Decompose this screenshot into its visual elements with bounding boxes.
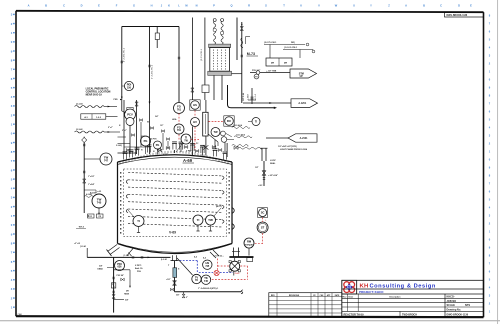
svg-text:TW: TW xyxy=(208,218,213,222)
svg-text:(1-2-2.5-CM-1: (1-2-2.5-CM-1 xyxy=(284,47,298,49)
svg-text:PG: PG xyxy=(156,144,160,147)
svg-text:2"x1": 2"x1" xyxy=(108,127,113,129)
svg-text:(TORQUE): (TORQUE) xyxy=(245,244,254,246)
svg-text:1/2"-3-44: 1/2"-3-44 xyxy=(242,92,245,101)
svg-text:3/4": 3/4" xyxy=(125,299,129,302)
svg-text:1,"V-TP-22 +: 1,"V-TP-22 + xyxy=(213,256,224,258)
svg-text:PSV 3/4": PSV 3/4" xyxy=(117,274,125,277)
svg-text:SEAL: SEAL xyxy=(270,162,276,165)
svg-text:HS: HS xyxy=(205,261,209,265)
svg-text:(1-3-41: (1-3-41 xyxy=(80,245,86,248)
svg-text:745: 745 xyxy=(97,201,102,205)
svg-text:TWD-BROCH: TWD-BROCH xyxy=(402,314,417,317)
svg-text:C: C xyxy=(440,4,442,8)
svg-text:Consulting & Design: Consulting & Design xyxy=(370,283,436,289)
svg-text:U: U xyxy=(300,4,302,8)
svg-text:+-4.5: +-4.5 xyxy=(97,190,101,193)
svg-text:REACTOR TH-59: REACTOR TH-59 xyxy=(344,314,365,317)
svg-text:LOOP: LOOP xyxy=(270,160,276,162)
svg-text:747: 747 xyxy=(104,159,109,162)
svg-text:V: V xyxy=(318,4,320,8)
svg-text:A-5: A-5 xyxy=(194,256,197,259)
svg-text:PSD: PSD xyxy=(114,99,119,101)
svg-text:FO: FO xyxy=(177,125,181,129)
svg-text:B: B xyxy=(45,4,47,8)
svg-text:4"-2-472-HC-1: 4"-2-472-HC-1 xyxy=(124,47,126,62)
svg-text:D: D xyxy=(81,4,83,8)
svg-text:2"x1": 2"x1" xyxy=(122,130,127,132)
svg-text:Q: Q xyxy=(230,4,232,8)
svg-text:Date: Date xyxy=(349,296,355,299)
svg-text:SCALE: SCALE xyxy=(447,304,456,307)
svg-text:1/2": 1/2" xyxy=(160,125,163,127)
svg-text:JOB NO: JOB NO xyxy=(447,300,457,303)
svg-text:PROJECT: KHCO: PROJECT: KHCO xyxy=(359,290,384,294)
svg-text:TW: TW xyxy=(214,130,219,134)
svg-text:3/4": 3/4" xyxy=(176,294,179,297)
svg-text:2-44-H: 2-44-H xyxy=(248,93,250,99)
svg-text:M: M xyxy=(185,4,187,8)
svg-text:G: G xyxy=(133,4,135,8)
svg-text:KHCO-: KHCO- xyxy=(447,296,455,299)
svg-text:(L-2-41: (L-2-41 xyxy=(161,258,167,261)
svg-text:A: A xyxy=(28,4,30,8)
svg-text:NTS: NTS xyxy=(465,304,470,307)
svg-text:ST: ST xyxy=(261,226,265,230)
svg-text:TK: TK xyxy=(195,280,198,282)
svg-text:DR: DR xyxy=(284,62,288,64)
svg-text:(2-3-42: (2-3-42 xyxy=(76,128,83,131)
svg-text:150: 150 xyxy=(127,86,132,89)
svg-text:HS: HS xyxy=(193,103,197,107)
svg-text:2-3-42(: 2-3-42( xyxy=(116,144,122,147)
svg-text:LIGHT PHASE FROM D-2204: LIGHT PHASE FROM D-2204 xyxy=(280,148,308,151)
svg-text:REVISIONS: REVISIONS xyxy=(289,295,300,297)
svg-text:X: X xyxy=(353,4,355,8)
svg-text:1/2-3-4H-5: 1/2-3-4H-5 xyxy=(236,133,245,136)
svg-text:PG: PG xyxy=(144,139,148,143)
svg-text:A-2101: A-2101 xyxy=(300,137,309,140)
svg-text:DEAD: DEAD xyxy=(98,267,104,270)
svg-text:+1/2": +1/2" xyxy=(166,279,171,281)
svg-text:SC: SC xyxy=(261,211,265,215)
svg-text:E: E xyxy=(470,4,472,8)
svg-text:1/2": 1/2" xyxy=(255,167,259,169)
svg-text:M-73: M-73 xyxy=(247,52,255,56)
svg-text:D: D xyxy=(458,4,460,8)
svg-text:DR): DR) xyxy=(291,42,295,44)
svg-text:+-1/2" HSE: +-1/2" HSE xyxy=(266,70,277,72)
svg-text:A: A xyxy=(405,4,407,8)
svg-text:1"-2-436-HS-3(STD)-1: 1"-2-436-HS-3(STD)-1 xyxy=(198,287,219,290)
svg-text:N 1/2": N 1/2" xyxy=(163,154,168,156)
svg-text:4' PAD: 4' PAD xyxy=(186,150,192,153)
svg-text:UP: UP xyxy=(300,76,304,78)
svg-text:TI: TI xyxy=(255,121,257,124)
svg-text:FIC: FIC xyxy=(227,119,231,123)
svg-text:HV: HV xyxy=(193,120,197,124)
svg-text:1"x1/2": 1"x1/2" xyxy=(88,176,95,178)
svg-text:PCV: PCV xyxy=(127,113,133,117)
svg-text:Description: Description xyxy=(389,296,401,299)
svg-text:HOA: HOA xyxy=(172,118,177,121)
svg-text:C: C xyxy=(63,4,65,8)
svg-text:TV: TV xyxy=(195,275,199,279)
svg-text:H: H xyxy=(151,4,153,8)
svg-text:TK: TK xyxy=(204,276,208,280)
svg-text:TI: TI xyxy=(197,218,200,222)
svg-text:B: B xyxy=(423,4,425,8)
svg-text:TANK: TANK xyxy=(124,292,130,295)
svg-text:WT-3: WT-3 xyxy=(79,227,85,229)
svg-text:A-69: A-69 xyxy=(183,158,193,163)
svg-text:E: E xyxy=(98,4,100,8)
svg-text:+ NC: + NC xyxy=(258,185,263,187)
svg-text:Batft 1%: Batft 1% xyxy=(135,267,143,270)
svg-text:(1-3-41: (1-3-41 xyxy=(124,254,130,257)
svg-text:R: R xyxy=(248,4,250,8)
svg-text:(BOT): (BOT) xyxy=(216,206,222,208)
svg-text:TI: TI xyxy=(185,135,188,139)
svg-text:Y: Y xyxy=(370,4,372,8)
svg-text:3/4": 3/4" xyxy=(99,265,103,268)
svg-text:2"-3-472-HC-1: 2"-3-472-HC-1 xyxy=(151,64,153,79)
svg-text:F A.5: F A.5 xyxy=(235,272,240,275)
svg-text:A-1201: A-1201 xyxy=(298,102,307,105)
svg-text:(2-2.75-CM-1: (2-2.75-CM-1 xyxy=(264,42,277,44)
svg-text:+2"-4.5: +2"-4.5 xyxy=(74,242,80,245)
svg-text:3/4": 3/4" xyxy=(155,115,158,118)
svg-text:DWG-BROOK-1136: DWG-BROOK-1136 xyxy=(447,15,468,17)
svg-text:P: P xyxy=(213,4,215,8)
svg-text:DR: DR xyxy=(271,62,275,64)
svg-text:V-69: V-69 xyxy=(169,230,176,234)
svg-text:Drawing No.: Drawing No. xyxy=(447,309,462,312)
svg-text:1/2-3-4H-4: 1/2-3-4H-4 xyxy=(233,124,243,127)
svg-text:761: 761 xyxy=(177,108,182,111)
svg-text:PIG PVS: PIG PVS xyxy=(149,139,157,141)
svg-text:PSV-1/2": PSV-1/2" xyxy=(252,70,260,72)
svg-text:+-1/2"x3/4": +-1/2"x3/4" xyxy=(268,174,278,177)
svg-text:STM: STM xyxy=(299,72,304,75)
svg-text:(2-2.5-CM-1: (2-2.5-CM-1 xyxy=(201,48,203,61)
svg-text:(2-3-44: (2-3-44 xyxy=(76,103,83,106)
svg-text:TI: TI xyxy=(137,219,140,223)
svg-text:1"x3/4": 1"x3/4" xyxy=(88,183,95,186)
svg-text:1-0.2: 1-0.2 xyxy=(96,117,102,119)
svg-text:SET #: SET # xyxy=(141,136,147,138)
svg-text:B-2007: B-2007 xyxy=(90,193,97,195)
svg-text:NEAR 50-D-19: NEAR 50-D-19 xyxy=(86,94,103,97)
svg-text:A-5: A-5 xyxy=(203,257,206,260)
svg-text:DWG-BROOK-1136: DWG-BROOK-1136 xyxy=(447,314,469,317)
svg-text:1/2"x3/4"x1/2"(STD): 1/2"x3/4"x1/2"(STD) xyxy=(278,145,297,148)
svg-text:N: N xyxy=(196,4,198,8)
svg-text:0.7M?1: 0.7M?1 xyxy=(135,265,141,267)
svg-text:CAD: CAD xyxy=(18,313,23,316)
svg-text:K: K xyxy=(168,4,170,8)
svg-text:S: S xyxy=(265,4,267,8)
svg-text:x1/2-4: x1/2-4 xyxy=(255,94,257,99)
svg-text:PDI: PDI xyxy=(117,262,122,266)
svg-text:2": 2" xyxy=(186,297,188,299)
svg-text:KH: KH xyxy=(360,283,369,289)
